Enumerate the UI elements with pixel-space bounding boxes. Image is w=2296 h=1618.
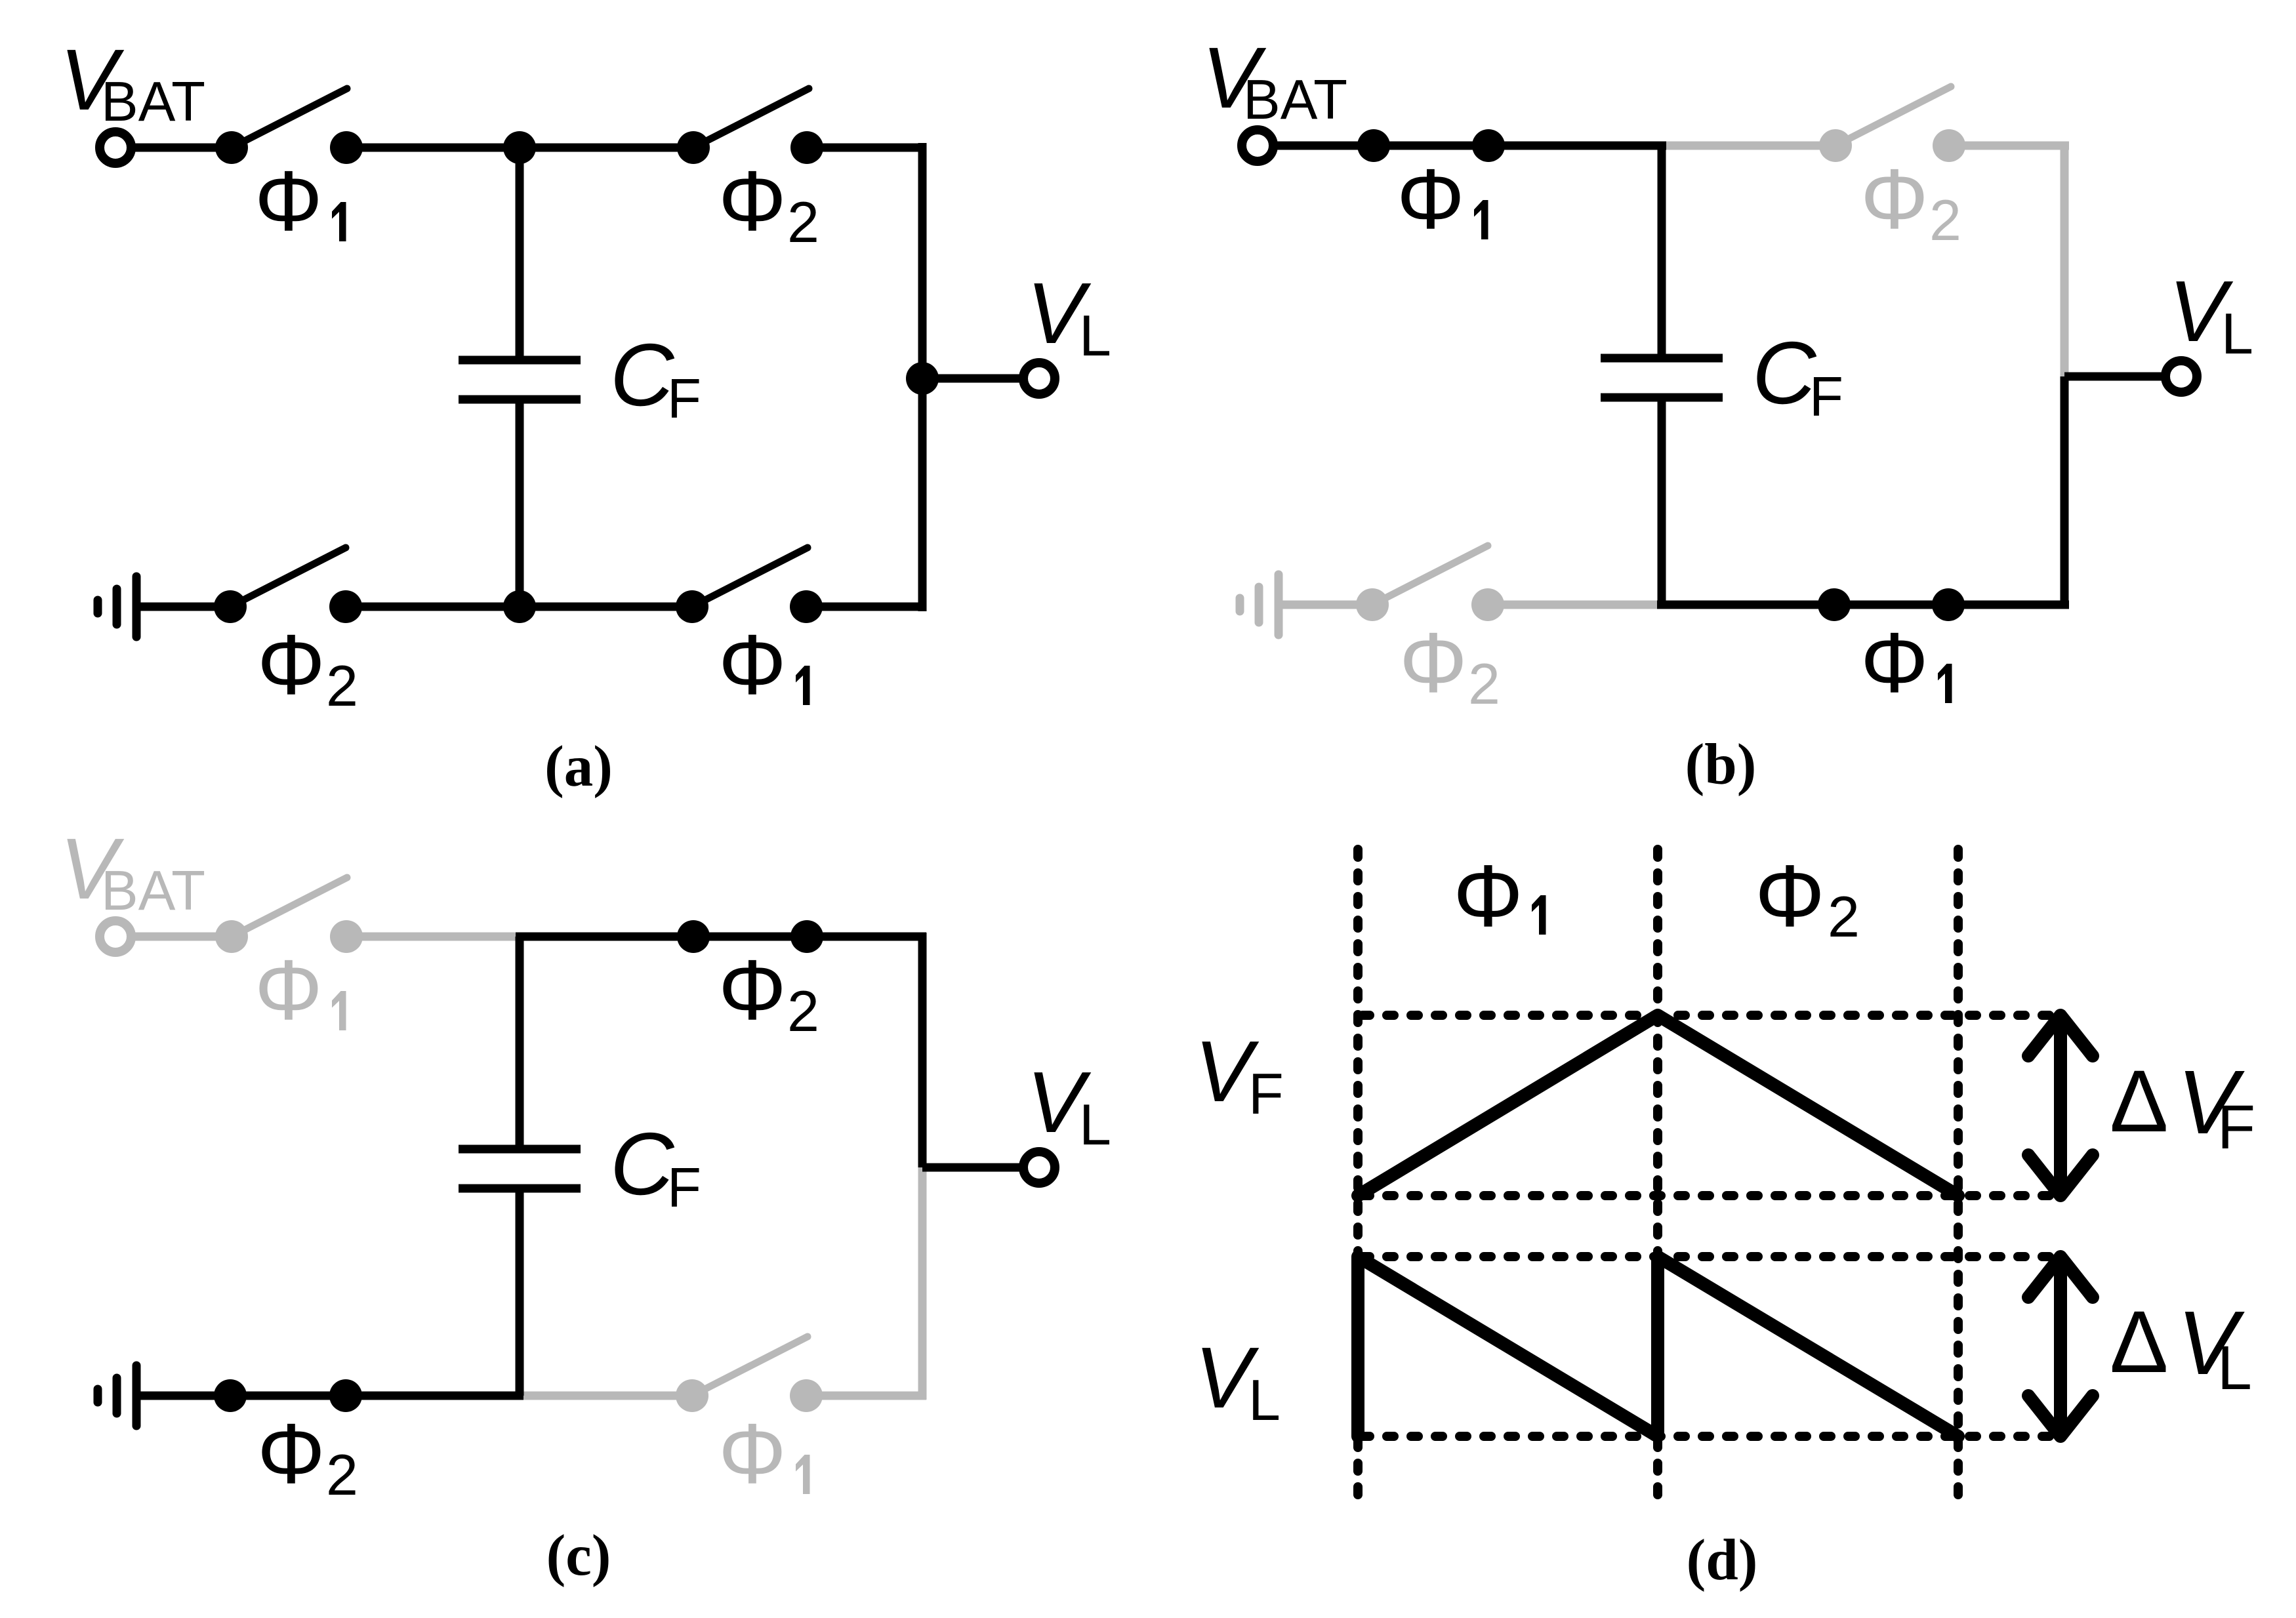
label phi1 top (a) bbox=[255, 153, 346, 249]
svg-text:L: L bbox=[2217, 1333, 2252, 1403]
svg-text:Φ: Φ bbox=[255, 153, 323, 249]
svg-text:Φ: Φ bbox=[718, 153, 787, 249]
svg-text:(d): (d) bbox=[1687, 1528, 1758, 1592]
wire right rail vertical (a) bbox=[918, 143, 927, 611]
label VL (c) bbox=[1027, 1054, 1111, 1157]
svg-text:F: F bbox=[667, 368, 701, 430]
node VL terminal (c) bbox=[1023, 1152, 1055, 1183]
label phi2 top (a) bbox=[718, 153, 819, 254]
switch S1c phi1 top-left (c) open gray bbox=[215, 878, 363, 953]
switch S3c phi2 bottom-left (c) closed bbox=[214, 1379, 362, 1412]
wire VBAT to switch S1a bbox=[131, 144, 232, 152]
wire node X to switch S2b gray bbox=[1662, 142, 1835, 150]
switch S4a phi1 bottom-right (a) open bbox=[676, 548, 823, 623]
svg-text:Δ: Δ bbox=[2110, 1293, 2169, 1391]
svg-text:L: L bbox=[2221, 301, 2253, 366]
label VBAT (b) bbox=[1202, 30, 1347, 131]
wire S1a to node X (a) bbox=[346, 144, 520, 152]
label VBAT (a) bbox=[60, 31, 205, 133]
svg-text:L: L bbox=[1248, 1367, 1281, 1432]
node VBAT terminal (b) bbox=[1242, 130, 1273, 161]
switch S2a phi2 top-right (a) open bbox=[677, 89, 823, 164]
node VL terminal (a) bbox=[1023, 363, 1055, 394]
arrow delta VF bbox=[2028, 1015, 2093, 1196]
waveform VL sawtooth bbox=[1358, 1257, 1958, 1436]
label phi2 top (c) bbox=[718, 942, 819, 1043]
grid dashed horizontal VF max bbox=[1363, 1011, 2060, 1020]
label phi2 bottom (a) bbox=[257, 617, 358, 718]
svg-text:C: C bbox=[1752, 323, 1817, 422]
label phi1 top (b) bbox=[1397, 151, 1488, 247]
svg-text:(b): (b) bbox=[1685, 733, 1757, 797]
svg-text:2: 2 bbox=[1929, 188, 1961, 253]
svg-text:2: 2 bbox=[1468, 651, 1500, 716]
capacitor CF (a) bbox=[459, 148, 581, 607]
svg-text:F: F bbox=[2217, 1093, 2255, 1162]
grid dashed vertical t1 bbox=[1653, 849, 1662, 1500]
svg-text:Φ: Φ bbox=[1860, 151, 1929, 247]
wire right rail lower gray (c) bbox=[918, 1167, 927, 1400]
svg-text:F: F bbox=[667, 1157, 701, 1219]
switch S3a phi2 bottom-left (a) open bbox=[214, 548, 362, 623]
wire S3b to node Y gray (b) bbox=[1488, 601, 1666, 609]
svg-text:F: F bbox=[1809, 366, 1843, 428]
wire ground to switch S3a bbox=[136, 603, 232, 611]
svg-text:BAT: BAT bbox=[1243, 69, 1347, 131]
switch S2b phi2 top-right (b) open gray bbox=[1819, 87, 1965, 162]
svg-text:Φ: Φ bbox=[1860, 615, 1929, 710]
svg-text:BAT: BAT bbox=[101, 71, 205, 133]
wire S3a to node Y (a) bbox=[346, 603, 520, 611]
svg-text:Φ: Φ bbox=[257, 617, 325, 712]
svg-text:2: 2 bbox=[1828, 884, 1860, 949]
svg-text:C: C bbox=[610, 1114, 675, 1213]
node VL junction dot (a) bbox=[906, 362, 939, 395]
wire S2b to top-right corner gray (b) bbox=[1949, 142, 2069, 150]
wire right rail upper black (c) bbox=[918, 933, 927, 1167]
label CF (a) bbox=[610, 325, 701, 430]
label phi1 bottom (a) bbox=[718, 617, 810, 712]
label phi1 top (c) gray bbox=[255, 942, 346, 1038]
wire S2a to top-right corner (a) bbox=[807, 144, 926, 152]
label VL (b) bbox=[2169, 263, 2253, 366]
svg-text:Δ: Δ bbox=[2110, 1053, 2169, 1150]
wire S4a to bottom-right corner (a) bbox=[807, 603, 922, 611]
node VBAT terminal (c) gray bbox=[100, 921, 131, 952]
grid dashed vertical t2 bbox=[1954, 849, 1963, 1500]
wire node Y to switch S4a bbox=[520, 603, 692, 611]
capacitor CF (b) bbox=[1601, 146, 1723, 605]
wire ground through closed switch S3c to node Y (c) bbox=[136, 1392, 523, 1400]
label phi1 bottom (b) bbox=[1860, 615, 1952, 710]
switch S2c phi2 top-right (c) closed bbox=[677, 920, 823, 953]
svg-text:2: 2 bbox=[326, 1442, 358, 1507]
grid dashed horizontal VF min bbox=[1363, 1191, 2060, 1200]
arrow delta VL bbox=[2028, 1257, 2093, 1436]
node VL terminal (b) bbox=[2165, 361, 2197, 392]
wire VBAT to switch S1c gray bbox=[131, 933, 232, 941]
wire node X through closed switch S2c to corner (c) bbox=[516, 933, 926, 941]
wire ground to switch S3b gray bbox=[1279, 601, 1374, 609]
switch S4c phi1 bottom-right (c) open gray bbox=[676, 1337, 823, 1412]
svg-text:Φ: Φ bbox=[1399, 615, 1467, 710]
wire node VL to terminal (c) bbox=[922, 1163, 1023, 1172]
svg-text:F: F bbox=[1248, 1061, 1284, 1126]
wire node VL to terminal (a) bbox=[922, 374, 1023, 383]
switch S1a phi1 top-left (a) open bbox=[215, 89, 363, 164]
svg-text:Φ: Φ bbox=[1397, 151, 1465, 247]
grid dashed vertical t0 bbox=[1353, 849, 1363, 1500]
wire node X to switch S2a bbox=[520, 144, 693, 152]
label CF (b) bbox=[1752, 323, 1843, 428]
svg-text:Φ: Φ bbox=[1755, 847, 1825, 945]
ground (b) gray bbox=[1240, 575, 1279, 635]
label phi2 bottom (b) gray bbox=[1399, 615, 1500, 716]
label VBAT (c) gray bbox=[60, 820, 205, 922]
svg-text:(a): (a) bbox=[544, 735, 613, 799]
wire S1c to node X gray (c) bbox=[346, 933, 523, 941]
label phi2 top (b) gray bbox=[1860, 151, 1961, 253]
ground (a) bbox=[98, 576, 136, 637]
wire node VL to terminal (b) bbox=[2064, 373, 2165, 381]
svg-text:2: 2 bbox=[787, 190, 819, 254]
label delta VF (d) bbox=[2110, 1052, 2255, 1162]
ground (c) bbox=[98, 1365, 136, 1426]
svg-text:BAT: BAT bbox=[101, 860, 205, 922]
svg-text:L: L bbox=[1079, 303, 1111, 368]
waveform VF triangle bbox=[1358, 1015, 1958, 1196]
svg-text:Φ: Φ bbox=[255, 942, 323, 1038]
svg-text:2: 2 bbox=[326, 653, 358, 718]
node VBAT terminal (a) bbox=[100, 132, 131, 163]
svg-text:Φ: Φ bbox=[718, 617, 787, 712]
svg-text:Φ: Φ bbox=[718, 1406, 787, 1501]
wire right rail upper gray (b) bbox=[2060, 142, 2069, 376]
switch S4b phi1 bottom-right (b) closed bbox=[1818, 588, 1965, 621]
svg-text:Φ: Φ bbox=[718, 942, 787, 1038]
label VL (a) bbox=[1027, 265, 1111, 368]
switch S3b phi2 bottom-left (b) open gray bbox=[1356, 546, 1504, 621]
label delta VL (d) bbox=[2110, 1293, 2252, 1403]
wire node Y through closed switch S4b to corner (b) bbox=[1657, 601, 2069, 609]
svg-text:C: C bbox=[610, 325, 675, 424]
switch S1b phi1 top-left (b) closed bbox=[1357, 129, 1505, 162]
grid dashed horizontal VL min bbox=[1363, 1432, 2060, 1441]
node Y junction dot (a) bbox=[503, 590, 536, 623]
label phi1 bottom (c) gray bbox=[718, 1406, 810, 1501]
wire right rail lower black (b) bbox=[2060, 376, 2069, 609]
grid dashed horizontal VL max bbox=[1363, 1252, 2060, 1261]
svg-text:2: 2 bbox=[787, 979, 819, 1043]
wire VBAT through closed switch S1b to node X (b) bbox=[1273, 142, 1666, 150]
svg-text:Φ: Φ bbox=[1453, 847, 1523, 945]
capacitor CF (c) bbox=[459, 937, 581, 1396]
label CF (c) bbox=[610, 1114, 701, 1219]
wire S4c to bottom-right corner gray (c) bbox=[807, 1392, 926, 1400]
node X junction dot (a) bbox=[503, 131, 536, 164]
svg-text:Φ: Φ bbox=[257, 1406, 325, 1501]
svg-text:L: L bbox=[1079, 1092, 1111, 1157]
svg-text:(c): (c) bbox=[546, 1524, 611, 1588]
label phi2 bottom (c) bbox=[257, 1406, 358, 1507]
wire node Y to switch S4c gray (c) bbox=[523, 1392, 692, 1400]
